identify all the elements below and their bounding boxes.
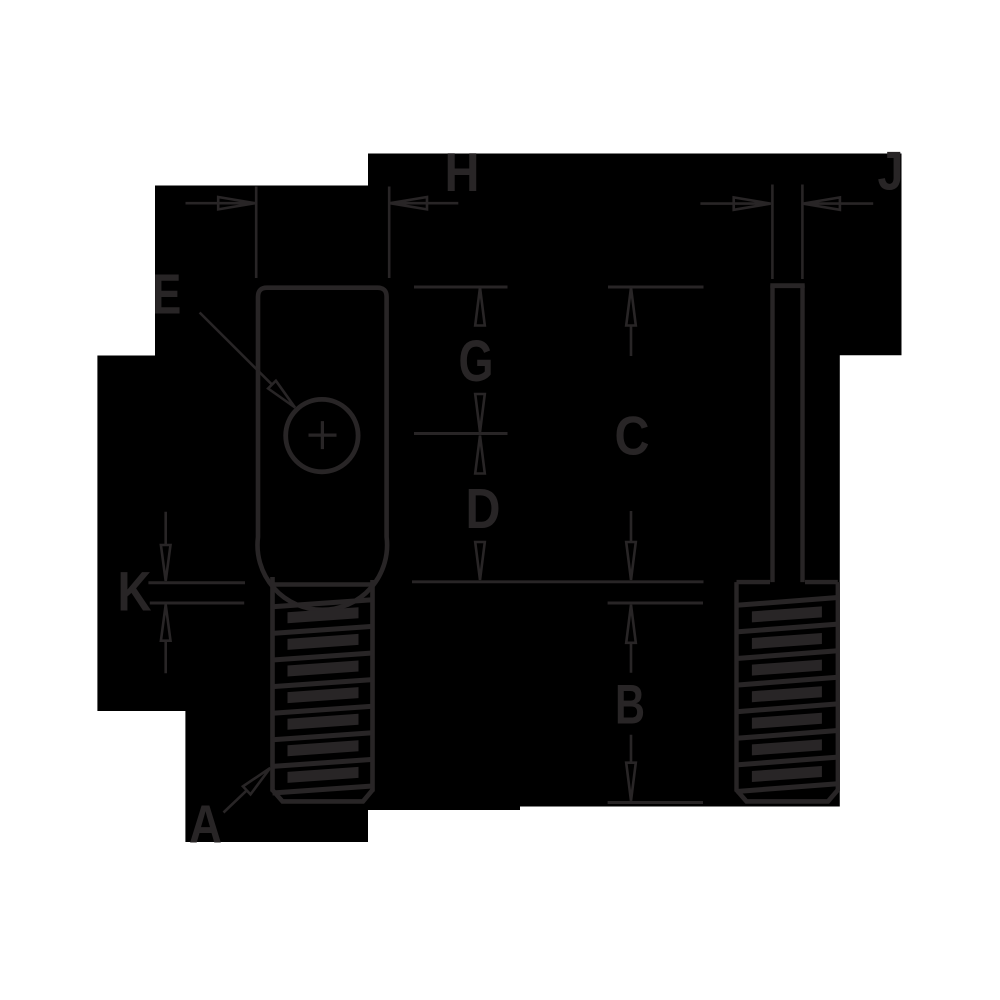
stud bottom chamfer — [273, 790, 373, 801]
H dim right arrow — [390, 197, 458, 209]
svg-text:E: E — [152, 263, 181, 327]
svg-text:G: G — [459, 329, 494, 394]
hole cross — [309, 421, 337, 449]
stud left edge — [270, 577, 275, 792]
J extension line left — [771, 185, 774, 280]
svg-text:D: D — [466, 477, 501, 540]
stud right edge — [370, 580, 375, 792]
cylinder top edge segments — [737, 580, 838, 584]
A leader line — [224, 768, 271, 813]
svg-text:B: B — [615, 672, 645, 735]
tab-top extension line C segment — [608, 286, 704, 289]
tab-top extension line G segment — [414, 286, 508, 289]
inner dark region (staircase) — [97, 154, 901, 843]
K lower line — [150, 602, 244, 605]
D dim bottom arrow — [475, 542, 485, 580]
H dim left arrow — [186, 197, 256, 209]
clevis tab outline (left view) — [258, 288, 388, 610]
cylinder left edge — [734, 582, 738, 791]
svg-text:J: J — [878, 140, 904, 202]
thread-top extension line — [608, 602, 703, 605]
H extension line left — [255, 187, 258, 279]
K bottom arrow — [161, 605, 171, 674]
cylinder thread root bars — [752, 606, 822, 782]
H extension line right — [388, 187, 391, 279]
K top arrow — [161, 512, 171, 581]
C dim top arrow — [626, 288, 636, 357]
C dim bottom arrow — [626, 511, 636, 580]
svg-text:H: H — [445, 141, 480, 203]
J dim right arrow — [803, 197, 873, 209]
cylinder thread crest lines — [737, 598, 838, 792]
B dim top arrow — [626, 605, 636, 673]
side-view bar right edge — [800, 285, 804, 582]
E leader line — [200, 313, 295, 408]
tab-bottom extension line — [412, 580, 704, 583]
J dim left arrow — [700, 197, 770, 209]
B dim bottom arrow — [626, 735, 636, 801]
side-view bar top edge — [770, 283, 804, 288]
stud thread root bars — [288, 607, 359, 783]
stud top edge — [273, 582, 372, 587]
G dim bottom arrow — [475, 394, 485, 432]
stud-bottom extension line — [608, 801, 703, 804]
svg-text:C: C — [615, 405, 650, 467]
K upper line — [148, 581, 245, 584]
cylinder bottom chamfer — [737, 790, 838, 801]
G dim top arrow — [475, 288, 485, 326]
J extension line right — [801, 185, 804, 280]
svg-text:A: A — [189, 794, 222, 854]
side-view bar left edge — [770, 285, 774, 582]
hole circle — [286, 399, 358, 471]
svg-text:K: K — [118, 559, 152, 622]
D dim top arrow — [475, 436, 485, 474]
stud thread crest lines — [273, 600, 373, 793]
cylinder right edge — [836, 582, 840, 791]
hole-center extension line — [414, 432, 508, 435]
